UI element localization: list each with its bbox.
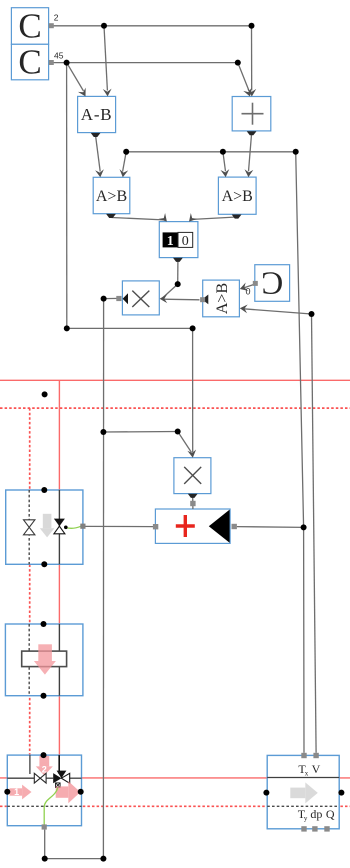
wire sensor2 vertical [312,314,317,753]
wire A>Brot to X1 [163,298,200,301]
node V1 bottom [41,561,47,567]
output A>B rotated [204,295,208,305]
green control wire V3 [44,788,58,825]
node V3 left [4,789,10,795]
svg-text:A>B: A>B [214,283,231,314]
output A-B [91,133,101,137]
port C rotated out [253,281,258,286]
arrow into A>B1 right [118,169,128,178]
node V3 top [41,752,47,758]
svg-text:Q: Q [326,807,335,821]
output A>B1 [106,214,116,218]
comparator block A>B 2 [218,177,256,214]
arrow into X1 right [160,294,168,303]
wire C2 branch to plus [238,63,249,92]
wire C2 route horizontal at 328 [67,327,193,329]
svg-text:C: C [18,6,41,45]
gray right arrow sensor [290,782,318,803]
wire C1 branch to A-B [104,26,107,91]
arrow into A>B2 right [244,169,253,177]
PORTS AND ARROWS [49,13,258,530]
wire V3 control bottom [45,830,104,859]
constant block C2 [11,42,48,81]
wire branch to X2 horizontal [103,431,177,434]
svg-text:1: 1 [14,787,19,797]
node V1 top [41,487,47,493]
port sensor bottom 2 [312,826,317,831]
port C2 out [49,60,54,65]
wire X1 output to bend [104,297,120,299]
dark pipe inside sensor [267,777,339,779]
svg-text:2: 2 [54,13,59,23]
arrow into X2 top [187,450,197,459]
three way valve triangles [53,773,61,783]
pink down arrow P1 [34,644,56,674]
node feed left [123,149,129,155]
wire A>B2 to switch [191,217,237,220]
wire feed branch to A>B1 [123,152,127,172]
node V3 right [78,789,84,795]
valve block V1 [6,487,86,567]
wire C1 branch to plus [251,26,253,91]
pink right arrow labelled 1 [10,785,32,800]
dark dashed pipe inside V3 [7,805,81,807]
node P1 top [41,621,47,627]
sum block red plus [155,509,230,543]
svg-text:C: C [261,264,283,300]
svg-text:1: 1 [167,234,174,249]
check valve on solid pipe [54,519,65,527]
wire C1 output horizontal [53,25,251,27]
comparator block A>B rotated [203,280,240,317]
wire A-B to A>B1 [96,136,101,172]
svg-text:A>B: A>B [222,188,253,205]
svg-text:45: 45 [54,51,64,61]
pipe supply horizontal [0,379,350,381]
hollow valve bowtie on dashed pipe [24,520,35,535]
PIPES-RED [0,380,350,806]
wire bend to X1 [163,284,178,297]
node route 328 right [190,325,196,331]
node sum output joins sensor1 [301,524,307,530]
wire Crot to A>Brot [242,284,255,288]
pipe vertical solid [58,380,60,778]
pipe symbol rectangle [22,651,67,667]
dark dashed pipe inside sensor [267,805,339,807]
arrow into A>B1 left [95,169,105,177]
arrow into switch left [159,213,171,225]
svg-text:0: 0 [246,287,251,297]
multiply block X1 [122,281,159,315]
wire X2 to sum [192,497,194,509]
arrow into A>Brot bottom right [239,304,247,313]
pink down arrow labelled 2 [36,756,53,776]
node sensor right [338,790,344,796]
node wire C1 end [249,23,255,29]
port C1 out [49,23,54,28]
port sensor top 1 [301,753,306,758]
output plus top block [247,131,257,135]
node feed right [293,149,299,155]
wire sensor2 to A>Brot [244,309,312,314]
output A>B2 [232,215,242,219]
wire C2 route vertical to X2 [192,328,194,452]
dashed pipe inside P1 [28,624,30,696]
arrow into plus right [247,89,256,97]
port sum right [232,524,237,529]
node route 328 left [64,325,70,331]
pipe return dashed horizontal [0,407,350,409]
pipe bottom horizontal [0,777,350,779]
port sensor top 2 [313,753,318,758]
wire branch diagonal to X2 [178,432,192,453]
node bottom corner left [42,856,48,862]
node P1 bottom [41,693,47,699]
gray down arrow V1 [40,514,55,538]
green control wire V1 [66,526,81,528]
port V3 control bottom [42,824,47,829]
wire A>B1 to switch [112,218,167,221]
node bend below switch [175,281,181,287]
wire plus to A>B2 [249,135,252,172]
constant block C rotated [255,264,290,301]
dashed pipe inside V1 [28,490,30,564]
wire C2 long vertical [66,63,68,329]
pipe bottom dashed horizontal [0,805,350,807]
svg-text:x: x [305,770,309,778]
output X2 [188,494,198,498]
sensor block T V [263,753,344,832]
node wire C2 end [235,60,241,66]
solid pipe inside V1 [58,490,60,564]
pipe vertical dashed [29,408,31,778]
valve actuator box [56,783,61,788]
svg-text:V: V [312,762,321,776]
node sensor left [263,790,269,796]
wire sensor feed horizontal [126,151,296,153]
arrow into switch right [186,213,198,225]
output X1 left [116,296,121,301]
node on wire C2 [64,60,70,66]
wire sensor to sum right [237,526,304,529]
node bottom corner right [100,856,106,862]
wire C2 output horizontal [53,62,237,64]
output switch [173,258,183,262]
port sum top [190,501,195,506]
port sensor bottom 1 [301,826,306,831]
BLOCKS [11,6,289,543]
node floating [42,391,48,397]
subtract block A-B [78,96,116,132]
comparator block A>B 1 [93,177,130,213]
dark pipe stubs inside V3 [29,755,31,774]
wire feed branch to A>B2 [223,152,226,172]
big pink right arrow V3 [56,781,81,803]
node bend to X2 [175,429,181,435]
port sum left [153,524,158,529]
LEFT HYDRAULIC BLOCKS [4,487,344,832]
hollow bowtie valve V3 [34,773,46,783]
arrow into A-B right [103,89,112,97]
node X1 branch [100,429,106,435]
wire switch to bend [177,261,179,284]
arrow into plus left [243,88,254,98]
svg-text:0: 0 [182,234,189,249]
node on wire C1 [101,23,107,29]
add block plus top [232,97,271,131]
switch block 1-0 [159,222,198,258]
arrow into A>Brot top right [238,282,248,293]
wire C2 branch to A-B [67,63,84,91]
port sensor bottom 3 [324,826,329,831]
multiply block X2 [174,458,211,494]
port V1 control [80,524,85,529]
wire sum to valve V1 [86,525,154,527]
svg-text:y: y [304,815,308,823]
node sensor2 top [309,311,315,317]
wire sensor1 vertical [296,152,304,753]
svg-text:C: C [18,42,41,81]
three way valve block V3 [4,752,83,830]
node X1 output bend [101,296,107,302]
pipe block P1 [5,621,83,699]
arrow into A>B2 left [221,169,231,177]
constant block C1 [11,6,48,45]
solid pipe inside P1 [58,624,60,696]
svg-text:dp: dp [310,807,322,821]
svg-text:A>B: A>B [96,188,127,205]
node feed mid [220,149,226,155]
wire X1 long vertical [102,299,104,859]
svg-text:A-B: A-B [81,105,113,124]
arrow into A-B left [78,88,89,99]
